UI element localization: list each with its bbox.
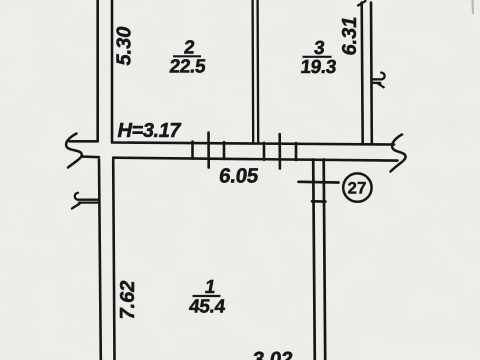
window W1 in horizontal wall: left jamb tick [191,142,194,159]
wall: main horizontal, bottom line [82,157,398,161]
wall: right vertical (room 3 outer wall) [362,3,372,144]
room 3 separator line [303,56,332,58]
svg-text:27: 27 [348,179,367,198]
window in lower right wall: lower jamb tick [312,200,326,203]
window W2: centre mullion (tall tick) [278,134,281,169]
room 2 separator line [173,55,201,57]
wall: main horizontal, top line [70,141,395,144]
wall: left vertical, lower segment [99,160,115,360]
scan artifact dash top-right [471,0,474,13]
svg-text:7.62: 7.62 [117,281,139,320]
radiator/vent hook on right wall [372,73,385,88]
wall: lower right vertical [313,160,325,360]
svg-text:6.31: 6.31 [339,17,361,56]
window W2: right jamb tick [295,143,298,160]
window W1: right jamb tick [223,142,226,159]
room 1 separator line [193,295,221,297]
svg-text:5.30: 5.30 [114,27,136,66]
svg-text:45.4: 45.4 [188,297,227,318]
wall: left vertical, upper segment [98,0,112,141]
svg-text:19.3: 19.3 [299,57,337,78]
window W2 in horizontal wall: left jamb tick [263,143,266,160]
wall: thin partition between rooms 2 and 3 [253,0,259,143]
svg-text:3.02: 3.02 [251,348,294,360]
break symbol: left end of horizontal wall [66,134,82,168]
break symbol: right end of horizontal wall [391,135,406,172]
window in lower right wall: long centre tick [299,180,339,183]
svg-text:22.5: 22.5 [168,57,207,78]
svg-text:H=3.17: H=3.17 [118,120,182,142]
svg-text:6.05: 6.05 [218,165,259,188]
cut tick at top of right wall [358,1,366,6]
apartment number circle (27) [343,173,371,201]
window W1: centre mullion (tall tick) [207,133,210,168]
radiator/vent hook on left wall [72,193,99,209]
